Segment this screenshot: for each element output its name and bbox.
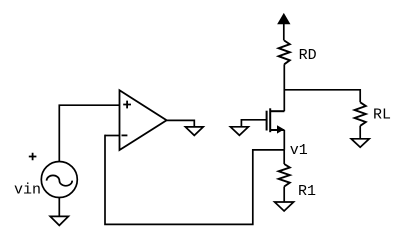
wire R1 top lead [283, 150, 285, 164]
wire gate [241, 120, 266, 127]
wire op-amp inverting input [105, 135, 120, 137]
voltage source vin [41, 162, 77, 198]
wire op-amp output [167, 120, 195, 127]
resistor RL [355, 102, 366, 126]
ground below RL [351, 139, 369, 147]
ground below vin [50, 216, 68, 225]
ground at gate [230, 127, 248, 136]
power VDD arrow [278, 14, 290, 41]
op-amp U1 [120, 90, 167, 150]
wire vin bottom stem [58, 198, 60, 217]
wire drain to RL [284, 90, 360, 103]
resistor R1 [279, 164, 290, 187]
ground at op-amp output [185, 127, 203, 135]
wire R1 bottom stem [283, 187, 285, 203]
svg-text:v1: v1 [290, 142, 308, 159]
wire vin top to op-amp + input [59, 105, 119, 161]
wire feedback loop to node v1 [105, 135, 284, 225]
resistor RD [279, 41, 290, 65]
svg-text:vin: vin [14, 182, 41, 199]
svg-text:RD: RD [299, 47, 317, 64]
plus polarity mark [29, 153, 37, 161]
transistor M1 (NMOS) [267, 108, 285, 132]
wire RL bottom stem [359, 126, 361, 139]
svg-text:R1: R1 [298, 183, 316, 200]
wire source vertical [283, 130, 285, 150]
svg-text:RL: RL [373, 106, 391, 123]
ground below R1 [275, 202, 294, 211]
wire drain vertical [283, 64, 285, 111]
